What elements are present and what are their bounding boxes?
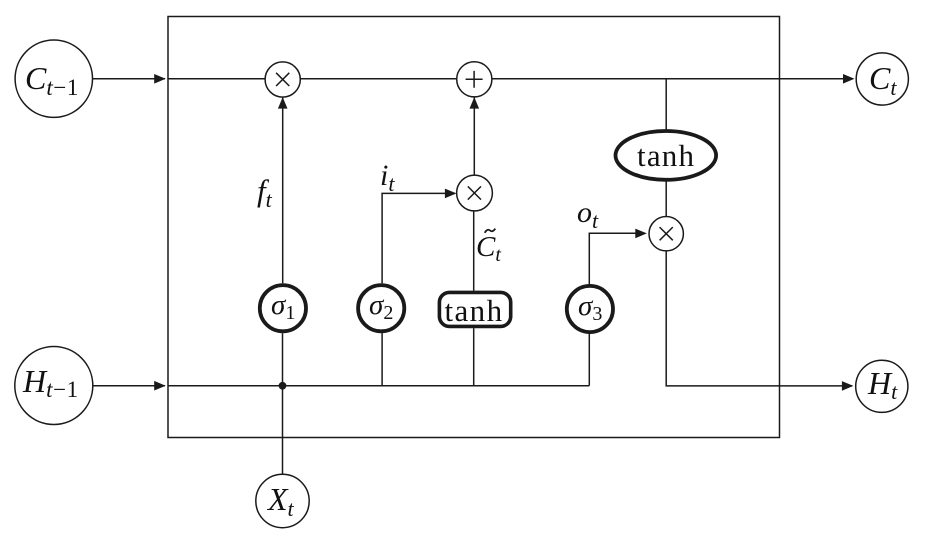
plus gate: [457, 62, 492, 97]
tanh gate rounded box: [439, 292, 510, 326]
arrowhead into cell box (C path): [154, 74, 166, 84]
svg-text:σ3: σ3: [578, 290, 602, 325]
svg-text:it: it: [380, 159, 395, 196]
node H_t: [856, 360, 908, 412]
arrowhead into cell box (H path): [154, 381, 166, 391]
svg-text:ot: ot: [577, 196, 599, 233]
tanh ellipse: [616, 131, 717, 180]
wire tanh box down to H line: [473, 328, 475, 386]
wire f_t: sigma1 up to multiply gate: [282, 98, 284, 284]
svg-text:Xt: Xt: [266, 481, 295, 521]
multiply cross: [660, 227, 673, 240]
node C_{t-1}: [15, 40, 92, 117]
wire sigma3 down to H line corner: [588, 333, 590, 386]
svg-text:Ct: Ct: [476, 231, 501, 266]
arrowhead into multiply gate bottom: [278, 97, 288, 109]
svg-text:Ct−1: Ct−1: [25, 60, 79, 100]
wire multiply to plus gate: [300, 78, 456, 80]
wire o_t: corner up from sigma3: [589, 233, 645, 285]
sigma2 gate: [358, 285, 404, 331]
right multiply gate: [649, 217, 683, 251]
svg-text:tanh: tanh: [445, 293, 504, 328]
svg-text:Ht−1: Ht−1: [22, 363, 79, 402]
wire middle multiply down to tanh box: [473, 211, 475, 291]
wire right multiply down and right to H_t: [666, 251, 852, 386]
node H_{t-1}: [15, 347, 93, 425]
internal H wire across cell: [168, 385, 589, 387]
svg-text:tanh: tanh: [637, 138, 695, 173]
multiply gate (forget) top-left: [265, 62, 300, 97]
wire cell box edge to multiply gate: [168, 78, 265, 80]
wire sigma1 down to junction and X_t: [282, 333, 284, 474]
svg-text:Ct: Ct: [869, 60, 897, 100]
svg-text:ft: ft: [257, 173, 273, 212]
node C_t: [856, 53, 908, 105]
wire tanh ellipse down to right multiply gate: [665, 181, 667, 216]
arrowhead into middle multiply gate: [445, 189, 457, 199]
sigma3 gate: [567, 286, 613, 332]
node X_t: [256, 474, 309, 527]
wire top line down to tanh ellipse: [665, 79, 667, 130]
outer LSTM cell box: [168, 17, 780, 438]
arrowhead into C_t: [843, 74, 855, 84]
wire plus gate to C_t: [492, 78, 853, 80]
tilde accent over C: [485, 229, 496, 233]
arrowhead into plus gate bottom: [470, 97, 480, 109]
arrowhead into H_t: [842, 381, 854, 391]
wire i_t: corner up from sigma2: [382, 193, 455, 283]
plus cross: [466, 71, 483, 88]
wire H_{t-1} to cell box: [93, 385, 165, 387]
svg-text:σ1: σ1: [271, 289, 295, 324]
wire sigma2 down to H line: [381, 333, 383, 386]
sigma1 gate: [260, 285, 306, 331]
wire middle multiply up to plus gate: [473, 98, 475, 176]
junction dot on H line: [279, 382, 287, 390]
multiply cross: [468, 186, 481, 199]
svg-text:Ht: Ht: [867, 365, 898, 404]
arrowhead into right multiply gate: [635, 229, 647, 239]
svg-text:σ2: σ2: [369, 289, 393, 324]
middle multiply gate: [457, 175, 493, 211]
wire C_{t-1} to cell box: [93, 78, 166, 80]
multiply cross: [276, 73, 289, 86]
